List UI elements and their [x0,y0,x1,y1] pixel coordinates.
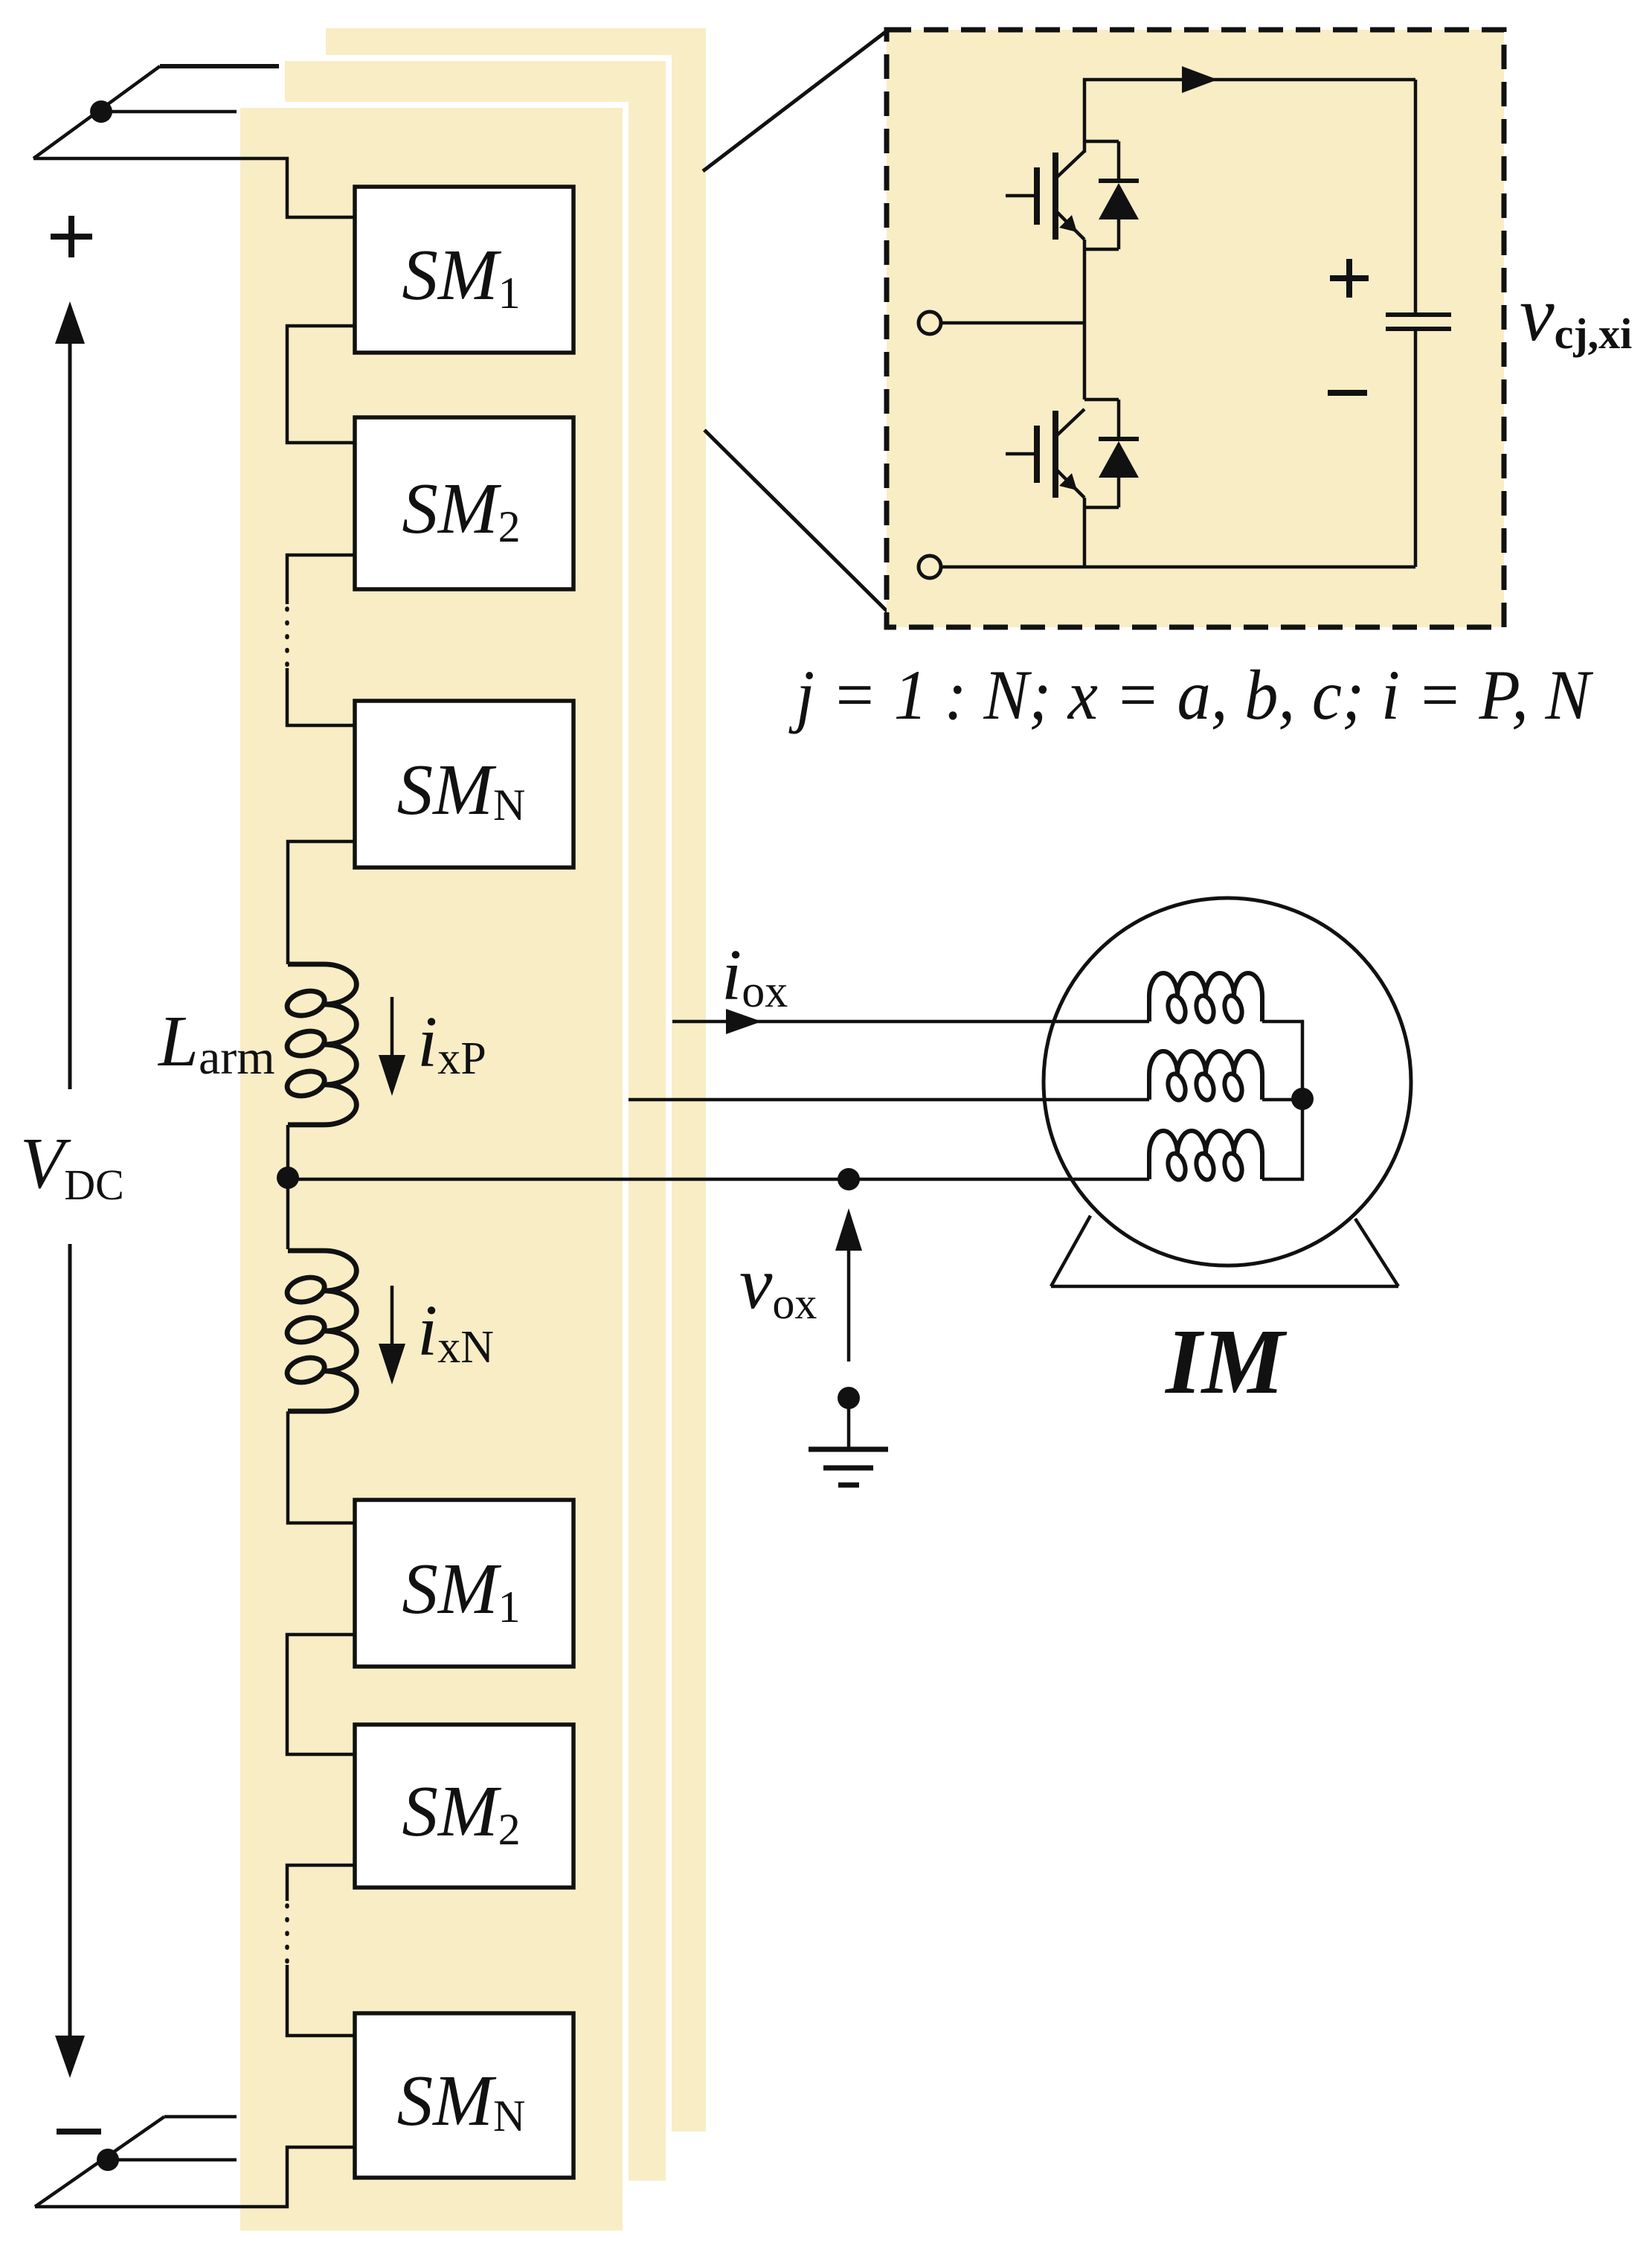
capacitor C [1386,315,1451,329]
IGBT T2 with diode D2 [1006,400,1139,507]
wire inductor to bottom arm SM1 [288,1411,356,1523]
submodule detail box [887,30,1504,627]
wire coil b to neutral bus [1262,1098,1302,1102]
PANELS [234,28,1149,2236]
wire phase a to coil [288,1178,1149,1181]
wire into SMN [287,668,356,725]
wire SM2 down [287,1865,356,1901]
stator coil c [1149,1131,1262,1181]
wire to phase b [101,110,237,114]
neutral node [1291,1088,1314,1110]
neutral bus [1262,1022,1302,1179]
wire into SMN [287,1965,356,2036]
stator coil a [1149,973,1262,1024]
wire SM2 down [287,555,356,604]
wire phase c output iox [672,1020,1149,1024]
SM BOXES [355,187,573,2178]
wire emitter junction [1084,248,1119,251]
wire phase b output [627,1098,1149,1102]
terminal lower [919,556,941,578]
wire to phase a [33,158,356,217]
wire diode cathode lead [1117,141,1121,181]
motor body circle [1044,898,1411,1266]
IGBT collector lead [1055,151,1084,179]
capacitor minus polarity mark [1328,390,1367,396]
MOTOR [288,898,1411,1485]
wire SM1-SM2 link [287,1635,356,1754]
wire SMN to DC- rail [35,2147,356,2207]
node DC+ [90,100,112,123]
arrow vox [847,1247,851,1362]
inductor Larm upper [284,964,356,1125]
VDC arrowhead up [55,301,85,344]
arrow ixN [390,1286,394,1348]
pointer line lower [704,430,887,612]
BOTTOM ARM [35,1635,356,2207]
diode triangle [1099,183,1139,219]
bottom wire [941,565,1415,569]
phase panel b (middle) [279,55,672,2187]
terminal upper [919,312,941,334]
right branch: capacitor leads [1414,80,1418,315]
TOP ARM [277,326,405,1523]
arrow ixP [390,997,394,1059]
wire SM1-SM2 link [287,326,356,443]
stator coil b [1149,1051,1262,1102]
wire collector junction [1084,140,1119,144]
arrowhead top wire [1182,66,1218,93]
diode cathode bar [1099,179,1139,183]
svg-text:IM: IM [1164,1311,1288,1414]
wire to phase c [160,64,279,68]
mid vertical [1083,240,1087,400]
dotted continuation [285,609,289,668]
VDC arrow shafts [68,336,72,2042]
submodule SMN (lower arm) [355,2013,573,2178]
DASHED SUBMODULE BOX [703,30,1504,627]
capacitor plus polarity mark [1330,259,1369,298]
wire to phase b [108,2158,237,2162]
node ground tap [838,1387,860,1409]
phase panel a (front) [234,102,629,2236]
node phase a output [277,1167,299,1189]
wire to phase c [164,2115,237,2119]
IGBT gate bar [1034,167,1040,225]
phase panel c (back) [326,28,706,2132]
BOTTOM DC BUS [35,2117,237,2207]
submodule SM2 (upper arm) [355,417,573,589]
submodule SM1 (lower arm) [355,1500,573,1667]
IGBT T1 with diode D1 [1006,141,1139,249]
wire SMN to upper arm inductor [288,841,356,964]
IGBT emitter arrow [1059,215,1077,232]
pointer line upper [703,31,887,171]
node vox tap [838,1168,860,1190]
plus sign [51,216,92,257]
submodule SM1 (upper arm) [355,187,573,353]
IGBT emitter lead [1055,211,1084,240]
arrowhead iox [726,1009,762,1034]
inductor Larm lower [284,1251,356,1411]
mid terminal wire [941,321,1084,325]
motor feet [1051,1285,1398,1289]
svg-text:j = 1 : N; x = a, b, c; i = P,: j = 1 : N; x = a, b, c; i = P, N [788,655,1594,734]
IGBT gate lead [1006,194,1035,198]
minus sign [57,2129,101,2135]
ground [847,1398,851,1449]
VDC [20,301,124,2078]
top wire [1084,80,1415,153]
wire diode anode lead [1117,219,1121,249]
TOP DC BUS [33,66,356,257]
dotted continuation [285,1905,289,1965]
VDC arrowhead down [55,2036,85,2078]
wire inductor to node [286,1125,290,1249]
node DC- [97,2149,119,2171]
DC+ rail diagonal [33,66,160,158]
DC- rail diagonal [35,2117,164,2207]
IGBT channel bar [1052,153,1058,240]
submodule SM2 (lower arm) [355,1725,573,1888]
submodule SMN (upper arm) [355,701,573,867]
